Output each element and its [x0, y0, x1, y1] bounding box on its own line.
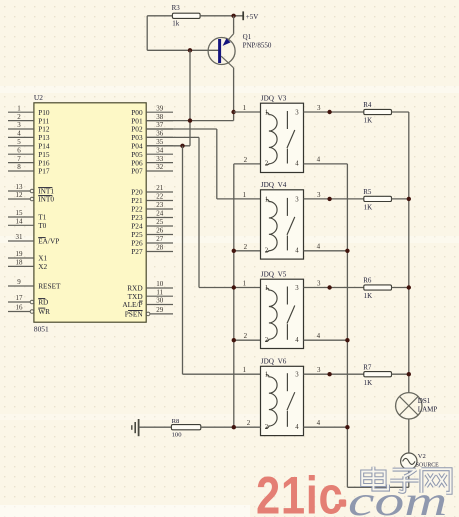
junction bus x R7 [407, 372, 411, 376]
junction V5 pin3 node [327, 285, 331, 289]
svg-text:R6: R6 [363, 277, 372, 285]
wire R7 right lead [392, 373, 409, 375]
ground [132, 419, 139, 436]
pin 1 P10 [8, 104, 50, 117]
svg-text:LAMP: LAMP [418, 406, 438, 414]
wire P01 net [146, 120, 233, 122]
svg-text:2: 2 [265, 248, 269, 255]
pin 10 RXD [127, 280, 173, 293]
wire V4 pin4 lead [304, 250, 348, 252]
svg-text:1: 1 [243, 280, 247, 288]
svg-text:2: 2 [265, 424, 269, 431]
svg-text:10: 10 [156, 280, 164, 288]
svg-text:U2: U2 [34, 93, 43, 102]
resistor R4 [364, 109, 392, 114]
wire R3 right lead to +5V [200, 15, 243, 17]
svg-text:1: 1 [265, 372, 268, 379]
wire rail up to V2 [408, 470, 410, 488]
svg-text:35: 35 [156, 138, 164, 146]
svg-text:Q1: Q1 [243, 33, 252, 41]
wire V6 pin1 lead [183, 373, 261, 375]
svg-text:3: 3 [295, 372, 299, 379]
wire R5 right lead [392, 198, 409, 200]
pin 32 P07 [131, 163, 173, 176]
wire V5 pin1 lead [199, 287, 261, 289]
svg-text:JDQ V6: JDQ V6 [261, 358, 287, 366]
svg-text:27: 27 [156, 235, 164, 243]
junction bus x R6 [407, 285, 411, 289]
svg-text:4: 4 [317, 419, 321, 427]
svg-text:2: 2 [244, 332, 248, 340]
svg-text:30: 30 [156, 297, 164, 305]
svg-text:21: 21 [156, 184, 164, 192]
resistor R6 [364, 285, 392, 290]
junction P01 x base vertical [188, 118, 192, 122]
pin 30 ALE/P [122, 297, 173, 310]
svg-text:3: 3 [295, 196, 299, 203]
lamp DS1 [396, 393, 422, 419]
AC source V2 [401, 453, 417, 469]
watermark dian zi wang characters [362, 467, 450, 493]
power +5V [243, 11, 258, 20]
wire P04 net [146, 145, 190, 147]
svg-text:+5V: +5V [246, 13, 259, 21]
svg-text:V2: V2 [418, 453, 426, 460]
svg-text:R7: R7 [363, 363, 372, 371]
svg-text:18: 18 [16, 259, 24, 267]
wire P02 vertical [216, 129, 218, 199]
svg-text:1: 1 [243, 366, 247, 374]
wire base vertical to P01/P04 [189, 50, 191, 146]
svg-text:4: 4 [317, 332, 321, 340]
svg-text:2: 2 [247, 419, 251, 427]
wire P01 jog up [233, 112, 235, 121]
pin 22 P21 [131, 193, 173, 206]
wire V5 pin2 lead [234, 339, 261, 341]
wire R4 right lead [392, 111, 409, 113]
svg-text:11: 11 [156, 288, 163, 296]
svg-text:RD: RD [38, 298, 48, 307]
wire V3 pin3 lead [304, 111, 364, 113]
wire bottom rail [347, 486, 408, 488]
svg-text:8051: 8051 [34, 325, 49, 334]
svg-text:R4: R4 [363, 101, 372, 109]
junction V3 pin3 node [327, 110, 331, 114]
pin 6 P15 [8, 146, 50, 159]
junction R3/+5V/Q1-emitter [231, 14, 235, 18]
svg-text:3: 3 [295, 285, 299, 292]
svg-text:9: 9 [17, 278, 21, 286]
svg-text:com: com [348, 478, 447, 517]
svg-text:1k: 1k [172, 20, 180, 28]
svg-text:3: 3 [317, 280, 321, 288]
svg-text:ALE/P: ALE/P [122, 300, 142, 309]
pin 3 P12 [8, 121, 50, 134]
svg-text:1: 1 [265, 110, 268, 117]
svg-text:6: 6 [17, 146, 21, 154]
junction collector node [231, 110, 235, 114]
pin 11 TXD [128, 288, 173, 301]
svg-text:4: 4 [317, 156, 321, 164]
svg-text:8: 8 [17, 163, 21, 171]
svg-text:4: 4 [295, 337, 299, 344]
svg-text:4: 4 [295, 161, 299, 168]
svg-text:2: 2 [265, 337, 269, 344]
wire P04 vertical [182, 146, 184, 374]
wire V6 pin3 lead [304, 373, 364, 375]
svg-text:2: 2 [244, 156, 248, 164]
svg-text:RESET: RESET [38, 282, 61, 291]
svg-text:1: 1 [265, 285, 268, 292]
watermark 21ic logo [256, 467, 346, 517]
wire V4 pin3 lead [304, 198, 364, 200]
pin 37 P02 [131, 121, 173, 134]
svg-text:29: 29 [156, 306, 164, 314]
svg-text:WR: WR [38, 307, 50, 316]
resistor R3 [172, 13, 200, 18]
relay V3 JDQ [261, 103, 304, 172]
svg-text:15: 15 [16, 209, 24, 217]
pin 28 P27 [131, 244, 173, 257]
wire Q1 collector drop [233, 68, 235, 112]
relay V6 JDQ [261, 366, 304, 435]
svg-text:JDQ V3: JDQ V3 [261, 94, 287, 102]
svg-text:PNP/8550: PNP/8550 [243, 42, 272, 50]
svg-text:DS1: DS1 [418, 397, 431, 405]
pin 14 T0 [8, 218, 47, 231]
pin 15 T1 [8, 209, 47, 222]
resistor R8 [171, 425, 200, 430]
svg-text:32: 32 [156, 163, 164, 171]
svg-text:21ic: 21ic [256, 467, 343, 517]
svg-text:23: 23 [156, 201, 164, 209]
wire V3 pin1 lead [234, 111, 261, 113]
svg-text:17: 17 [16, 294, 24, 302]
wire R8 to V6 pin2 [201, 426, 261, 428]
junction bus end on R8 line [232, 425, 236, 429]
relay V5 JDQ [261, 279, 304, 348]
wire Q1 base horizontal [147, 49, 218, 51]
svg-text:2: 2 [265, 161, 269, 168]
wire V3 pin4 lead [304, 163, 348, 165]
svg-text:3: 3 [295, 110, 299, 117]
wire V5 pin3 lead [304, 287, 364, 289]
pin 19 X1 [8, 250, 47, 263]
wire lamp feed bus [408, 112, 410, 393]
wire gnd to R8 [139, 426, 172, 428]
svg-text:R8: R8 [172, 418, 180, 425]
svg-text:4: 4 [295, 248, 299, 255]
pin 9 RESET [8, 278, 61, 291]
pin 12 INT0 [8, 191, 54, 204]
junction P04 tee [180, 144, 184, 148]
svg-text:4: 4 [295, 424, 299, 431]
svg-text:P07: P07 [131, 167, 143, 176]
wire Q1 emitter to +5V [233, 16, 235, 34]
relay V4 JDQ [261, 190, 304, 259]
svg-text:38: 38 [156, 113, 164, 121]
svg-text:12: 12 [16, 191, 24, 199]
svg-text:14: 14 [16, 218, 24, 226]
junction pin4 bus x V6 [345, 425, 349, 429]
svg-text:39: 39 [156, 104, 164, 112]
svg-text:16: 16 [16, 304, 24, 312]
svg-text:1K: 1K [364, 117, 373, 125]
svg-text:19: 19 [16, 250, 24, 258]
svg-text:T0: T0 [38, 221, 46, 230]
pin 36 P03 [131, 130, 173, 143]
svg-text:3: 3 [317, 104, 321, 112]
svg-text:2: 2 [244, 243, 248, 251]
svg-text:1K: 1K [364, 292, 373, 300]
pin 23 P22 [131, 201, 173, 214]
svg-text:X2: X2 [38, 262, 47, 271]
junction bus x V5 pin2 [232, 338, 236, 342]
pin 7 P16 [8, 155, 50, 168]
svg-text:7: 7 [17, 155, 21, 163]
wire V4 pin1 lead [217, 198, 261, 200]
svg-text:2: 2 [17, 113, 21, 121]
svg-text:33: 33 [156, 155, 164, 163]
wire common pin4 bus [346, 164, 348, 487]
pin 16 WR [8, 304, 50, 317]
pin 35 P04 [131, 138, 173, 151]
pin 17 RD [8, 294, 48, 307]
resistor R5 [364, 196, 392, 201]
svg-text:5: 5 [17, 138, 21, 146]
svg-text:3: 3 [17, 121, 21, 129]
wire left loop vertical [146, 16, 148, 51]
svg-text:P17: P17 [38, 167, 50, 176]
svg-text:25: 25 [156, 218, 164, 226]
pin 38 P01 [131, 113, 173, 126]
svg-text:26: 26 [156, 227, 164, 235]
resistor R7 [364, 372, 392, 377]
op-amp-style IC body U2 8051 [34, 103, 146, 322]
svg-text:13: 13 [16, 183, 24, 191]
svg-text:3: 3 [317, 191, 321, 199]
pin 26 P25 [131, 227, 173, 240]
wire coil return bus [233, 164, 235, 427]
pin 29 PSEN [125, 306, 173, 319]
svg-text:36: 36 [156, 130, 164, 138]
pin 4 P13 [8, 130, 50, 143]
pin 25 P24 [131, 218, 173, 231]
wire R6 right lead [392, 287, 409, 289]
watermark com script [348, 478, 447, 517]
junction bus x R5 [407, 197, 411, 201]
pin 13 INT1 [8, 183, 54, 196]
svg-text:PSEN: PSEN [125, 310, 144, 319]
svg-text:1K: 1K [364, 379, 373, 387]
pin 39 P00 [131, 104, 173, 117]
svg-text:JDQ V5: JDQ V5 [261, 270, 287, 278]
svg-text:4: 4 [317, 243, 321, 251]
svg-text:1: 1 [243, 104, 247, 112]
svg-text:R5: R5 [363, 188, 372, 196]
wire V5 pin4 lead [304, 339, 348, 341]
junction bus x V4 pin2 [232, 249, 236, 253]
svg-text:37: 37 [156, 121, 164, 129]
svg-text:1: 1 [265, 196, 268, 203]
junction base tee [188, 48, 192, 52]
svg-text:22: 22 [156, 193, 164, 201]
pin 33 P06 [131, 155, 173, 168]
junction V4 pin3 node [327, 197, 331, 201]
pin 8 P17 [8, 163, 50, 176]
pin 21 P20 [131, 184, 173, 197]
svg-text:4: 4 [17, 130, 21, 138]
wire lamp to V2 [408, 419, 410, 453]
wire V6 pin4 lead [304, 426, 348, 428]
wire P03 vertical [198, 137, 200, 287]
pin 31 EA/VP [8, 233, 59, 246]
svg-text:R3: R3 [172, 4, 181, 12]
svg-text:100: 100 [172, 432, 183, 439]
transistor Q1 PNP/8550 [208, 34, 235, 68]
junction V6 pin3 node [327, 372, 331, 376]
wire V3 pin2 lead [234, 163, 261, 165]
svg-text:P27: P27 [131, 247, 143, 256]
pin 24 P23 [131, 210, 173, 223]
wire V4 pin2 lead [234, 250, 261, 252]
junction bus x V5 pin1 [232, 285, 236, 289]
wire R3 left lead [147, 15, 172, 17]
wire P02 net [146, 128, 217, 130]
svg-text:24: 24 [156, 210, 164, 218]
svg-text:1: 1 [17, 104, 21, 112]
svg-text:34: 34 [156, 146, 164, 154]
pin 18 X2 [8, 259, 47, 272]
junction pin4 bus x V5 [345, 338, 349, 342]
pin 34 P05 [131, 146, 173, 159]
svg-text:28: 28 [156, 244, 164, 252]
pin 5 P14 [8, 138, 50, 151]
svg-text:1K: 1K [364, 204, 373, 212]
svg-text:3: 3 [317, 366, 321, 374]
pin 2 P11 [8, 113, 50, 126]
pin 27 P26 [131, 235, 173, 248]
wire P03 net [146, 136, 199, 138]
junction pin4 bus x V4 [345, 249, 349, 253]
svg-text:JDQ V4: JDQ V4 [261, 181, 287, 189]
svg-text:31: 31 [16, 233, 24, 241]
svg-text:1: 1 [243, 191, 247, 199]
